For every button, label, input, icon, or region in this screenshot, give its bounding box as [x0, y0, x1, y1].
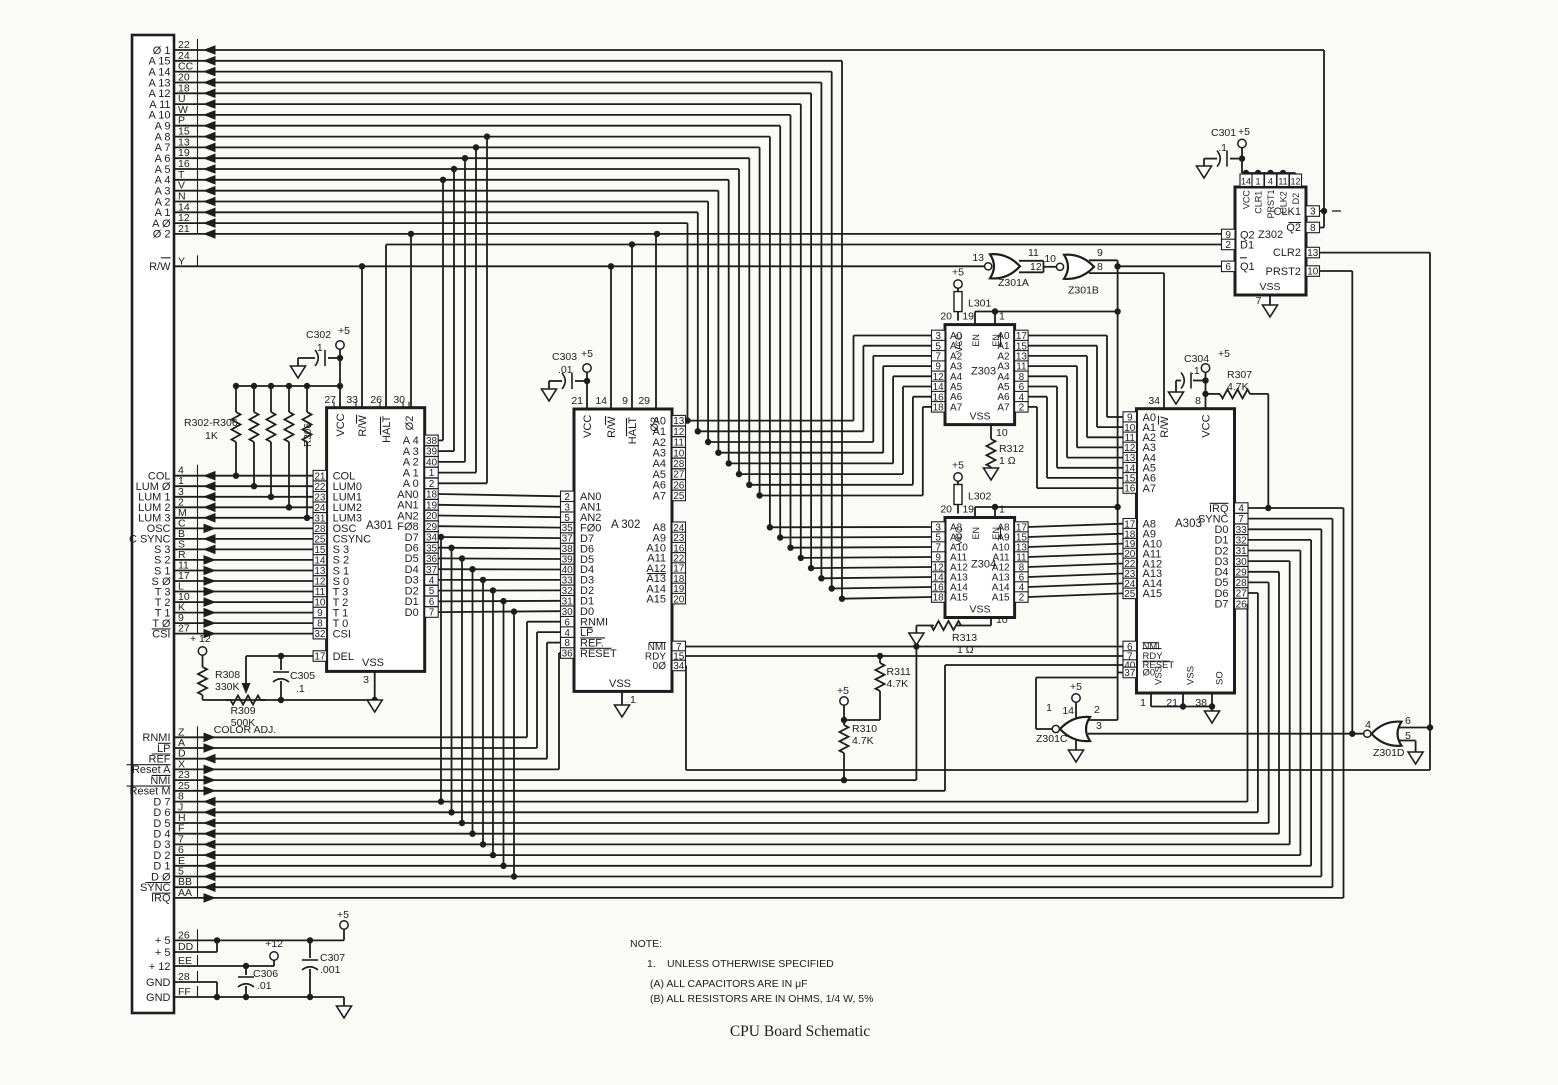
- svg-text:CPU Board Schematic: CPU Board Schematic: [730, 1023, 870, 1040]
- svg-text:R310: R310: [852, 723, 877, 735]
- svg-text:4.7K: 4.7K: [887, 678, 909, 690]
- svg-text:35: 35: [426, 543, 438, 554]
- svg-text:C305: C305: [290, 670, 315, 682]
- svg-text:11: 11: [1278, 177, 1287, 187]
- svg-text:32: 32: [314, 629, 326, 640]
- svg-text:20: 20: [940, 311, 952, 323]
- svg-text:.001: .001: [320, 964, 341, 976]
- svg-text:GND: GND: [146, 977, 171, 989]
- svg-text:CLR2: CLR2: [1273, 247, 1301, 259]
- svg-text:3: 3: [363, 674, 369, 686]
- svg-text:CSI: CSI: [152, 628, 170, 640]
- svg-text:.01: .01: [558, 364, 573, 376]
- svg-text:18: 18: [933, 593, 945, 604]
- svg-text:R309: R309: [230, 705, 255, 717]
- svg-text:+5: +5: [952, 460, 964, 472]
- svg-text:VSS: VSS: [1186, 666, 1197, 685]
- svg-text:VCC: VCC: [954, 333, 964, 353]
- svg-text:Z301B: Z301B: [1068, 285, 1099, 297]
- svg-text:2: 2: [1019, 403, 1025, 414]
- svg-text:Ø2: Ø2: [649, 417, 661, 432]
- svg-text:Z302: Z302: [1258, 229, 1283, 241]
- svg-text:VSS: VSS: [1259, 281, 1280, 293]
- svg-text:2: 2: [1225, 240, 1231, 251]
- svg-text:Z301A: Z301A: [998, 277, 1029, 289]
- svg-text:A 302: A 302: [611, 519, 640, 531]
- svg-text:+ 12: + 12: [149, 961, 171, 973]
- svg-text:+5: +5: [338, 325, 350, 337]
- svg-text:34: 34: [426, 533, 438, 544]
- svg-text:25: 25: [1124, 589, 1136, 600]
- svg-text:19: 19: [962, 311, 974, 323]
- svg-text:9: 9: [1097, 247, 1103, 259]
- svg-text:13: 13: [1307, 248, 1319, 259]
- svg-text:12: 12: [1290, 177, 1300, 187]
- svg-text:EN: EN: [991, 334, 1001, 347]
- svg-text:VCC: VCC: [1201, 414, 1213, 437]
- svg-text:4.7K: 4.7K: [1227, 381, 1249, 393]
- svg-text:A15: A15: [1143, 588, 1163, 600]
- svg-text:A301: A301: [366, 520, 393, 532]
- svg-text:7: 7: [1256, 295, 1262, 307]
- svg-text:330K: 330K: [215, 681, 240, 693]
- svg-text:+5: +5: [581, 348, 593, 360]
- svg-text:10: 10: [673, 448, 685, 459]
- svg-text:EN: EN: [971, 527, 981, 540]
- svg-text:(A) ALL CAPACITORS ARE IN μF: (A) ALL CAPACITORS ARE IN μF: [650, 978, 808, 990]
- svg-text:2: 2: [1019, 593, 1025, 604]
- svg-text:5: 5: [1405, 730, 1411, 742]
- svg-text:7: 7: [429, 608, 435, 619]
- svg-text:37: 37: [1124, 668, 1136, 679]
- svg-text:A7: A7: [653, 490, 666, 502]
- svg-text:R306: R306: [303, 423, 314, 447]
- svg-text:Z303: Z303: [971, 366, 996, 378]
- svg-text:21: 21: [571, 395, 583, 407]
- svg-text:R313: R313: [952, 632, 977, 644]
- svg-text:11: 11: [1028, 247, 1039, 259]
- svg-text:20: 20: [940, 504, 952, 516]
- svg-text:HALT: HALT: [627, 417, 639, 445]
- svg-text:20: 20: [673, 594, 685, 605]
- svg-text:10: 10: [1044, 253, 1056, 265]
- svg-text:14: 14: [1062, 705, 1074, 717]
- svg-text:10: 10: [1307, 267, 1319, 278]
- svg-text:Q2: Q2: [1286, 222, 1301, 234]
- svg-text:13: 13: [972, 252, 984, 264]
- svg-text:VSS: VSS: [969, 604, 990, 616]
- svg-text:R/W: R/W: [149, 261, 171, 273]
- svg-text:+ 12: + 12: [190, 633, 211, 645]
- svg-text:9: 9: [622, 395, 628, 407]
- svg-text:Ø 2: Ø 2: [153, 229, 171, 241]
- svg-text:1K: 1K: [205, 430, 218, 442]
- svg-text:3: 3: [1096, 720, 1102, 732]
- svg-text:1 Ω: 1 Ω: [999, 455, 1016, 467]
- svg-text:6: 6: [1405, 715, 1411, 727]
- svg-text:A7: A7: [997, 402, 1010, 413]
- svg-text:4: 4: [1365, 719, 1371, 731]
- svg-text:VCC: VCC: [1242, 190, 1252, 210]
- svg-text:C303: C303: [552, 351, 577, 363]
- svg-text:L301: L301: [968, 298, 992, 310]
- svg-text:6: 6: [1225, 262, 1231, 273]
- svg-text:R/W: R/W: [606, 416, 618, 438]
- svg-text:A15: A15: [992, 593, 1010, 604]
- svg-text:VSS: VSS: [609, 678, 631, 690]
- svg-text:.1: .1: [1191, 365, 1200, 377]
- svg-text:EN: EN: [971, 334, 981, 347]
- svg-text:12: 12: [1030, 261, 1042, 273]
- svg-text:29: 29: [426, 522, 438, 533]
- svg-text:A7: A7: [950, 402, 963, 413]
- svg-text:C304: C304: [1184, 353, 1209, 365]
- svg-text:10: 10: [996, 427, 1008, 439]
- svg-text:34: 34: [673, 661, 685, 672]
- svg-text:C302: C302: [306, 329, 331, 341]
- svg-text:4.7K: 4.7K: [852, 735, 874, 747]
- svg-text:+ 5: + 5: [155, 935, 171, 947]
- svg-text:D7: D7: [1214, 599, 1228, 611]
- svg-text:R308: R308: [215, 669, 240, 681]
- svg-text:10: 10: [996, 614, 1008, 626]
- svg-text:EN: EN: [991, 527, 1001, 540]
- svg-text:26: 26: [1236, 599, 1248, 610]
- svg-text:GND: GND: [146, 992, 171, 1004]
- svg-text:COLOR ADJ.: COLOR ADJ.: [214, 724, 276, 736]
- svg-text:VCC: VCC: [582, 415, 594, 438]
- svg-text:R/W: R/W: [357, 415, 369, 437]
- svg-text:.01: .01: [257, 980, 272, 992]
- svg-text:A7: A7: [1143, 483, 1156, 495]
- svg-text:16: 16: [1124, 484, 1136, 495]
- svg-text:+12: +12: [265, 938, 283, 950]
- svg-text:Z301D: Z301D: [1373, 747, 1405, 759]
- svg-text:L302: L302: [968, 491, 992, 503]
- svg-text:C307: C307: [320, 952, 345, 964]
- svg-text:UNLESS OTHERWISE SPECIFIED: UNLESS OTHERWISE SPECIFIED: [667, 958, 834, 970]
- svg-text:DEL: DEL: [333, 651, 354, 663]
- svg-text:+5: +5: [837, 685, 849, 697]
- svg-text:VCC: VCC: [335, 413, 347, 436]
- svg-text:14: 14: [1241, 177, 1251, 187]
- svg-text:Q1: Q1: [1240, 261, 1255, 273]
- svg-text:Ø2: Ø2: [404, 416, 416, 431]
- svg-text:.1: .1: [296, 683, 305, 695]
- svg-text:VCC: VCC: [954, 526, 964, 546]
- svg-text:R/W: R/W: [1159, 416, 1171, 438]
- svg-text:+5: +5: [1238, 126, 1250, 138]
- svg-text:1: 1: [1140, 697, 1146, 709]
- svg-text:+5: +5: [337, 909, 349, 921]
- svg-text:D1: D1: [1240, 239, 1254, 251]
- svg-text:20: 20: [426, 511, 438, 522]
- svg-text:(B) ALL RESISTORS ARE IN OHMS,: (B) ALL RESISTORS ARE IN OHMS, 1/4 W, 5%: [650, 993, 873, 1005]
- svg-text:19: 19: [962, 504, 974, 516]
- svg-text:4: 4: [429, 576, 435, 587]
- svg-text:17: 17: [314, 652, 326, 663]
- svg-text:HALT: HALT: [381, 415, 393, 443]
- svg-text:8: 8: [1310, 223, 1316, 234]
- svg-text:1.: 1.: [647, 958, 656, 970]
- svg-text:+ 5: + 5: [155, 947, 171, 959]
- svg-text:R312: R312: [999, 443, 1024, 455]
- svg-text:CSI: CSI: [333, 628, 351, 640]
- svg-text:2: 2: [1094, 704, 1100, 716]
- svg-text:CLR1: CLR1: [1254, 191, 1264, 214]
- svg-text:A15: A15: [646, 594, 666, 606]
- svg-text:NOTE:: NOTE:: [630, 938, 662, 950]
- svg-text:C301: C301: [1211, 127, 1236, 139]
- svg-text:1: 1: [1255, 177, 1260, 187]
- svg-text:+5: +5: [1218, 348, 1230, 360]
- svg-text:CLK1: CLK1: [1273, 206, 1301, 218]
- svg-text:D0: D0: [405, 607, 419, 619]
- svg-text:R311: R311: [887, 666, 911, 678]
- svg-text:VSS: VSS: [362, 657, 384, 669]
- svg-text:A15: A15: [950, 593, 968, 604]
- svg-text:.1: .1: [314, 342, 323, 354]
- svg-text:8: 8: [1195, 395, 1201, 407]
- svg-text:1: 1: [1046, 702, 1052, 714]
- svg-text:VSS: VSS: [1154, 666, 1165, 685]
- svg-text:14: 14: [595, 395, 607, 407]
- svg-text:36: 36: [562, 649, 574, 660]
- svg-text:R307: R307: [1227, 369, 1252, 381]
- svg-text:0Ø: 0Ø: [653, 661, 667, 672]
- svg-text:C306: C306: [253, 968, 278, 980]
- svg-text:1: 1: [999, 504, 1005, 516]
- svg-text:+5: +5: [1070, 681, 1082, 693]
- svg-text:R302-R306: R302-R306: [184, 417, 238, 429]
- svg-text:29: 29: [638, 395, 650, 407]
- svg-text:RESET: RESET: [580, 648, 617, 660]
- svg-text:Z301C: Z301C: [1036, 733, 1068, 745]
- svg-text:18: 18: [933, 403, 945, 414]
- svg-text:VSS: VSS: [969, 411, 990, 423]
- svg-text:36: 36: [426, 554, 438, 565]
- svg-text:PRST2: PRST2: [1266, 266, 1301, 278]
- svg-text:8: 8: [1097, 261, 1103, 273]
- svg-text:D2: D2: [1291, 193, 1301, 205]
- svg-text:34: 34: [1148, 395, 1160, 407]
- svg-text:25: 25: [673, 491, 685, 502]
- svg-text:IRQ: IRQ: [151, 893, 171, 905]
- svg-text:.1: .1: [1218, 142, 1227, 154]
- svg-text:4: 4: [1268, 177, 1273, 187]
- svg-text:3: 3: [1310, 207, 1316, 218]
- svg-text:+5: +5: [952, 267, 964, 279]
- svg-text:SO: SO: [1215, 671, 1226, 685]
